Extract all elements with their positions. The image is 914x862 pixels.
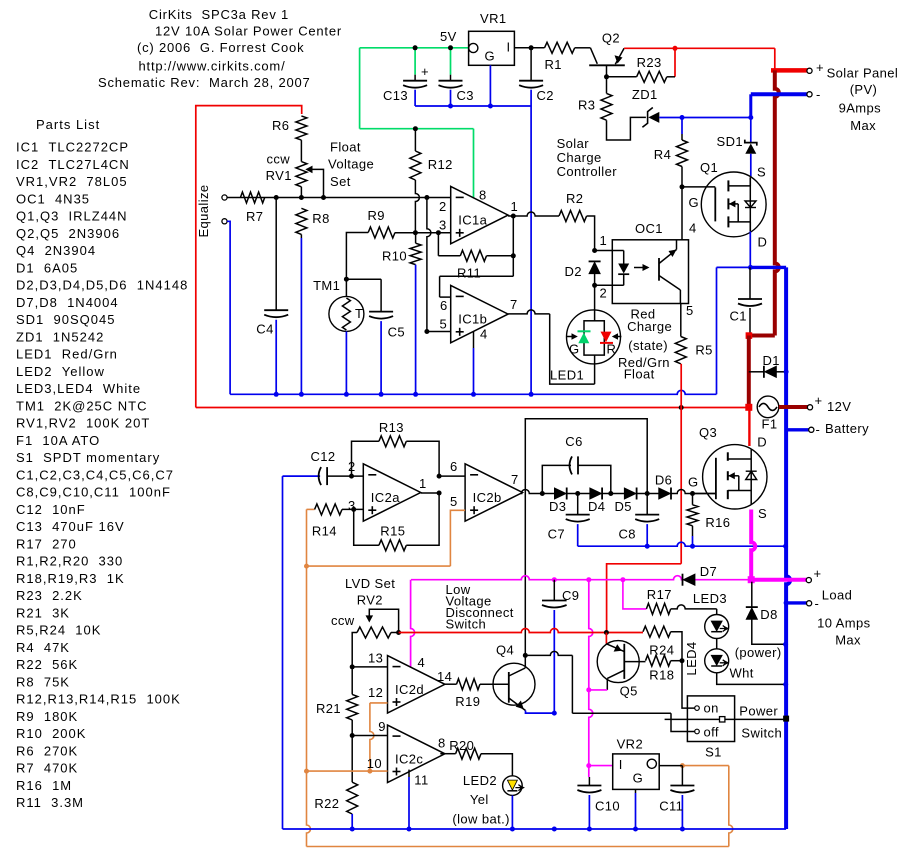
diode D4: [590, 488, 602, 499]
wire IC2c pin11: [408, 770, 410, 777]
svg-text:G: G: [688, 475, 699, 490]
svg-text:C2: C2: [537, 88, 554, 103]
svg-text:S: S: [757, 165, 766, 180]
svg-text:Solar: Solar: [557, 136, 590, 151]
wire magenta mid drop: [589, 580, 593, 777]
wire C2 gnd down long: [530, 106, 532, 394]
wire R5 red down: [680, 364, 682, 408]
wire box link: [525, 419, 647, 656]
switch S1: [687, 696, 734, 742]
wire d4d5: [602, 493, 624, 495]
resistor R11: [437, 233, 439, 256]
wire C8 drop: [646, 494, 648, 515]
svg-text:C12 10nF: C12 10nF: [16, 502, 86, 517]
svg-text:C12: C12: [311, 449, 336, 464]
svg-text:D1: D1: [763, 353, 780, 368]
svg-text:1: 1: [600, 233, 608, 248]
svg-text:+: +: [814, 566, 822, 581]
svg-text:-: -: [816, 422, 821, 437]
svg-text:on: on: [704, 701, 719, 716]
svg-text:D2: D2: [565, 264, 582, 279]
svg-text:5: 5: [686, 303, 694, 318]
svg-text:D3: D3: [549, 499, 566, 514]
led LED4: [716, 639, 718, 649]
svg-text:12V: 12V: [827, 399, 851, 414]
svg-text:VR2: VR2: [617, 737, 644, 752]
svg-text:7: 7: [511, 472, 519, 487]
resistor R5: [675, 337, 686, 364]
svg-text:4: 4: [480, 327, 488, 342]
svg-text:ccw: ccw: [331, 613, 355, 628]
svg-text:Schematic Rev: March 28, 2007: Schematic Rev: March 28, 2007: [98, 75, 311, 90]
svg-text:Charge: Charge: [557, 150, 602, 165]
svg-text:TM1 2K@25C NTC: TM1 2K@25C NTC: [16, 398, 148, 413]
svg-text:IC2c: IC2c: [395, 751, 423, 766]
svg-text:TM1: TM1: [313, 278, 340, 293]
svg-text:R23: R23: [637, 55, 662, 70]
svg-text:C11: C11: [659, 799, 683, 814]
svg-text:Q2,Q5 2N3906: Q2,Q5 2N3906: [16, 226, 120, 241]
svg-text:D: D: [758, 235, 768, 250]
wire magenta main row: [411, 576, 751, 580]
svg-text:LED2 Yellow: LED2 Yellow: [16, 364, 105, 379]
op-amp IC2a: [363, 464, 420, 521]
resistor R2: [559, 211, 587, 222]
svg-text:RV1,RV2 100K 20T: RV1,RV2 100K 20T: [16, 416, 150, 431]
svg-text:R6: R6: [272, 118, 289, 133]
wire led3 feed: [671, 605, 717, 609]
capacitor C2: [530, 48, 532, 81]
resistor R10: [415, 233, 417, 244]
wire solar- stub: [751, 92, 808, 96]
svg-text:4: 4: [689, 220, 697, 235]
svg-text:LED2: LED2: [463, 773, 497, 788]
svg-text:R12,R13,R14,R15 100K: R12,R13,R14,R15 100K: [16, 692, 181, 707]
svg-text:Controller: Controller: [557, 164, 618, 179]
wire red to R23: [674, 48, 676, 77]
svg-text:IC2d: IC2d: [395, 682, 424, 697]
resistor R20: [440, 753, 455, 755]
capacitor C11: [681, 766, 683, 786]
svg-text:14: 14: [437, 669, 452, 684]
wire blue mid rail: [230, 390, 716, 394]
svg-text:5: 5: [440, 317, 448, 332]
optocoupler OC1 box: [612, 240, 688, 304]
svg-text:C5: C5: [388, 325, 405, 340]
svg-text:Q2: Q2: [602, 31, 620, 46]
svg-text:R7 470K: R7 470K: [16, 761, 78, 776]
wire VR2 G: [635, 789, 637, 793]
wire diode row: [542, 493, 554, 495]
svg-text:C1,C2,C3,C4,C5,C6,C7: C1,C2,C3,C4,C5,C6,C7: [16, 467, 174, 482]
svg-text:C6: C6: [565, 434, 582, 449]
wire Q4 collector up: [524, 655, 526, 668]
svg-text:2: 2: [600, 286, 608, 301]
wire Q1 gate: [682, 186, 715, 188]
resistor R17: [623, 580, 647, 609]
diode D2: [589, 260, 601, 262]
svg-text:R11 3.3M: R11 3.3M: [16, 795, 84, 810]
op-amp IC2c: [388, 725, 445, 782]
svg-text:D6: D6: [655, 473, 672, 488]
capacitor C9: [553, 580, 555, 601]
node magenta big junction: [748, 576, 755, 583]
svg-text:http://www.cirkits.com/: http://www.cirkits.com/: [139, 59, 286, 74]
wire PV- down: [749, 94, 752, 117]
wire Q1 drain down: [749, 231, 751, 267]
wire pin3 row: [395, 232, 451, 234]
wire magenta Vcc drop: [411, 580, 415, 668]
wire 12V+ stub: [779, 405, 808, 409]
wire Q4 emitter blue: [526, 711, 555, 714]
svg-text:12: 12: [368, 685, 383, 700]
svg-text:Power: Power: [739, 704, 778, 719]
node dot OC1 pin2: [592, 283, 597, 288]
svg-text:R22 56K: R22 56K: [16, 657, 78, 672]
svg-text:OC1: OC1: [635, 221, 663, 236]
wire Q5 emitter stub: [605, 633, 607, 644]
svg-text:RV1: RV1: [266, 168, 292, 183]
wire Q3 source magenta: [751, 510, 755, 580]
pot RV1: [300, 140, 302, 162]
wire pin6 row: [439, 475, 465, 477]
wire LED4 to rail: [717, 673, 786, 685]
resistor R8: [296, 208, 307, 234]
node dot Q2 base node: [604, 74, 609, 79]
svg-text:R2: R2: [566, 191, 583, 206]
diode D3: [555, 488, 567, 499]
svg-text:IC2b: IC2b: [473, 490, 502, 505]
svg-text:G: G: [569, 342, 580, 357]
svg-text:R9: R9: [368, 208, 385, 223]
svg-text:5V: 5V: [440, 29, 457, 44]
wire C2 to gnd: [530, 90, 532, 106]
wire orange C11 row: [682, 765, 728, 767]
svg-text:C1: C1: [730, 309, 747, 324]
svg-text:1: 1: [511, 199, 519, 214]
resistor R24: [643, 626, 671, 637]
wire red down right: [774, 48, 776, 70]
wire solar+ stub: [771, 68, 808, 73]
svg-text:Q1: Q1: [700, 160, 718, 175]
svg-text:Q4 2N3904: Q4 2N3904: [16, 243, 96, 258]
svg-text:G: G: [633, 771, 644, 786]
wire R1 to Q2: [575, 47, 591, 49]
svg-text:G: G: [485, 49, 496, 64]
svg-text:Battery: Battery: [825, 421, 869, 436]
svg-text:C9: C9: [562, 588, 579, 603]
svg-text:G: G: [689, 195, 700, 210]
wire bat- stub: [786, 428, 810, 431]
svg-text:Set: Set: [330, 174, 351, 189]
svg-text:C8,C9,C10,C11 100nF: C8,C9,C10,C11 100nF: [16, 485, 171, 500]
svg-text:ZD1 1N5242: ZD1 1N5242: [16, 329, 104, 344]
wire Q1 gate to OC1 pin4: [681, 187, 683, 240]
wire equalize2 blue: [227, 221, 230, 394]
wire red bottom rail: [196, 407, 749, 409]
svg-text:Wht: Wht: [730, 666, 754, 681]
svg-text:C4: C4: [256, 322, 273, 337]
wire pin13 row: [352, 666, 387, 668]
svg-text:R4: R4: [654, 147, 671, 162]
regulator VR1: [469, 31, 515, 65]
svg-text:RV2: RV2: [357, 593, 383, 608]
svg-text:D1 6A05: D1 6A05: [16, 260, 78, 275]
optocoupler OC1 led: [623, 251, 625, 264]
wire Q3 gate: [693, 493, 716, 495]
svg-text:off: off: [704, 725, 719, 740]
wire Q4 coll to off: [525, 651, 572, 655]
svg-text:T: T: [355, 306, 363, 321]
svg-text:Solar Panel: Solar Panel: [827, 66, 899, 81]
svg-text:R1: R1: [545, 57, 562, 72]
wire pin2 row: [225, 197, 451, 199]
regulator VR2: [613, 754, 660, 790]
capacitor C12: [319, 467, 322, 485]
svg-text:R22: R22: [314, 796, 339, 811]
svg-text:1: 1: [419, 476, 427, 491]
wire pin9 row: [352, 735, 387, 737]
svg-text:(low bat.): (low bat.): [452, 812, 509, 827]
capacitor C10: [588, 777, 590, 786]
wire PV+ to C1 bottom: [749, 334, 775, 338]
svg-text:R18,R19,R3 1K: R18,R19,R3 1K: [16, 571, 125, 586]
capacitor C7: [577, 494, 579, 515]
svg-text:IC2 TLC27L4CN: IC2 TLC27L4CN: [16, 157, 130, 172]
svg-text:R10 200K: R10 200K: [16, 726, 86, 741]
svg-text:9: 9: [378, 719, 386, 734]
resistor R18: [646, 655, 671, 666]
wire IC1a out: [508, 212, 559, 216]
wire d5d6: [637, 493, 659, 495]
svg-text:4: 4: [418, 655, 426, 670]
wire RV1 bottom: [300, 187, 302, 198]
svg-text:D8: D8: [760, 607, 777, 622]
svg-text:C10: C10: [595, 799, 620, 814]
svg-text:8: 8: [438, 736, 446, 751]
wire orange bottom rail: [307, 846, 729, 848]
wire ZD1 to R4/PV-: [659, 117, 751, 119]
wire red R5-D7 drop: [680, 408, 682, 564]
svg-text:R15: R15: [380, 524, 405, 539]
wire magenta load+: [751, 578, 806, 582]
svg-text:ZD1: ZD1: [632, 87, 658, 102]
svg-text:R11: R11: [457, 266, 481, 281]
svg-text:R21: R21: [316, 701, 341, 716]
wire pin2pin5 link: [427, 198, 431, 332]
wire node267 to blue rail: [716, 267, 718, 394]
wire 5V green rail: [360, 47, 468, 49]
resistor R4: [681, 118, 683, 135]
svg-text:LED3,LED4 White: LED3,LED4 White: [16, 381, 141, 396]
svg-text:S1 SPDT momentary: S1 SPDT momentary: [16, 450, 160, 465]
wire IC2b out: [521, 490, 542, 494]
wire OC1 pin2 stub: [595, 284, 624, 286]
wire C3 top lead green: [450, 48, 452, 75]
svg-text:R7: R7: [246, 209, 263, 224]
wire R2 to D2: [587, 216, 595, 251]
wire orange left vert: [307, 509, 311, 846]
svg-text:VR1: VR1: [480, 11, 507, 26]
wire pin5 orange: [450, 510, 465, 566]
svg-text:Switch: Switch: [741, 726, 782, 741]
resistor R3: [601, 93, 612, 120]
node dot C13 top: [413, 45, 418, 50]
resistor R12: [414, 129, 416, 151]
wire C12 blue: [283, 475, 321, 477]
wire VR2 input magenta: [589, 765, 613, 767]
wire d6 to gate: [671, 490, 716, 494]
wire orange branch1: [307, 565, 451, 567]
svg-text:Max: Max: [850, 118, 876, 133]
svg-text:13: 13: [368, 651, 383, 666]
node dot fuse-left: [745, 404, 752, 411]
resistor R9: [346, 233, 368, 280]
capacitor C6: [542, 465, 571, 493]
svg-text:Float: Float: [624, 367, 655, 382]
svg-text:R: R: [607, 342, 617, 357]
wire R10 gnd: [415, 265, 417, 395]
wire blue gnd rail top: [415, 105, 531, 107]
svg-text:R24: R24: [649, 643, 674, 658]
svg-text:R18: R18: [649, 668, 674, 683]
op-amp IC2d: [388, 656, 445, 713]
wire pin5 row: [427, 331, 451, 333]
wire R8 gnd: [300, 238, 302, 394]
wire VR1 G to gnd: [489, 65, 491, 106]
svg-text:R23 2.2K: R23 2.2K: [16, 588, 83, 603]
svg-text:Voltage: Voltage: [328, 157, 374, 172]
svg-text:C13 470uF 16V: C13 470uF 16V: [16, 519, 125, 534]
svg-text:Max: Max: [835, 633, 861, 648]
wire Q3 drain red: [748, 407, 750, 446]
svg-text:IC1a: IC1a: [458, 213, 487, 228]
svg-text:C13: C13: [383, 88, 408, 103]
svg-text:8: 8: [479, 188, 487, 203]
svg-text:SD1 90SQ045: SD1 90SQ045: [16, 312, 115, 327]
wire PV+ heavy down: [775, 70, 779, 335]
node dot 5V: [448, 45, 453, 50]
svg-text:S: S: [758, 506, 767, 521]
svg-text:SD1: SD1: [717, 134, 744, 149]
node dot R12 top on green: [413, 126, 418, 131]
svg-text:D7,D8 1N4004: D7,D8 1N4004: [16, 295, 119, 310]
wire red jog to LVD: [607, 564, 682, 633]
svg-text:R6 270K: R6 270K: [16, 743, 78, 758]
svg-text:OC1 4N35: OC1 4N35: [16, 191, 90, 206]
resistor R14: [307, 508, 315, 510]
svg-text:Float: Float: [330, 140, 361, 155]
capacitor C5: [346, 278, 381, 280]
svg-text:3: 3: [439, 218, 447, 233]
svg-text:-: -: [815, 596, 820, 611]
svg-text:(PV): (PV): [850, 82, 878, 97]
capacitor C3: [450, 75, 452, 81]
svg-text:R17 270: R17 270: [16, 536, 77, 551]
wire R12 to pin3: [415, 180, 419, 233]
svg-text:7: 7: [510, 297, 518, 312]
svg-text:+: +: [816, 60, 824, 75]
svg-text:+: +: [421, 64, 429, 79]
wire VR1 out to R1: [514, 47, 544, 49]
wire pin12 orange: [370, 702, 388, 704]
svg-text:Yel: Yel: [470, 792, 489, 807]
resistor R13 loop: [352, 441, 379, 476]
svg-text:C8: C8: [619, 527, 636, 542]
svg-text:R14: R14: [312, 524, 337, 539]
capacitor C13: [414, 75, 416, 81]
resistor R16: [692, 494, 694, 505]
svg-text:Q3: Q3: [699, 425, 717, 440]
svg-text:12V 10A Solar Power Center: 12V 10A Solar Power Center: [155, 23, 342, 38]
svg-text:R19: R19: [455, 694, 480, 709]
svg-text:5: 5: [450, 494, 458, 509]
svg-text:I: I: [619, 757, 623, 772]
resistor R22: [351, 736, 353, 783]
resistor R7: [240, 192, 264, 203]
wire load- stub: [786, 601, 807, 604]
svg-text:R1,R2,R20 330: R1,R2,R20 330: [16, 554, 123, 569]
svg-text:C3: C3: [457, 88, 474, 103]
capacitor C4: [275, 198, 277, 311]
svg-text:R8 75K: R8 75K: [16, 674, 70, 689]
wire pin10 orange: [370, 770, 388, 772]
terminal equalize2: [222, 219, 227, 224]
svg-text:S1: S1: [705, 745, 722, 760]
svg-text:2: 2: [439, 199, 447, 214]
svg-text:R16: R16: [705, 515, 730, 530]
svg-text:R3: R3: [578, 98, 595, 113]
wire IC1b pin4: [473, 331, 475, 348]
svg-text:R12: R12: [428, 157, 453, 172]
fuse F1: [757, 396, 779, 418]
svg-text:R5,R24 10K: R5,R24 10K: [16, 623, 101, 638]
capacitor C8: [635, 514, 659, 516]
svg-text:R20: R20: [449, 738, 474, 753]
svg-text:R4 47K: R4 47K: [16, 640, 70, 655]
svg-text:9Amps: 9Amps: [839, 101, 882, 116]
resistor R23: [607, 76, 637, 78]
wire orange right vert: [729, 766, 733, 847]
svg-text:IC2a: IC2a: [371, 490, 400, 505]
svg-text:Charge: Charge: [627, 319, 672, 334]
svg-text:R17: R17: [647, 587, 672, 602]
svg-text:6: 6: [440, 298, 448, 313]
wire VR2 out: [659, 765, 682, 767]
svg-text:LED4: LED4: [684, 641, 699, 675]
wire S1 common: [725, 718, 786, 720]
svg-text:6: 6: [450, 459, 458, 474]
op-amp IC2b: [465, 464, 522, 521]
wire green bottom run: [360, 128, 474, 130]
terminal equalize1: [222, 195, 227, 200]
wire d3d4: [567, 493, 590, 495]
wire orange branch2: [307, 770, 370, 772]
svg-text:ccw: ccw: [267, 152, 291, 167]
op-amp IC1b: [451, 285, 508, 342]
svg-text:IC1 TLC2272CP: IC1 TLC2272CP: [16, 140, 129, 155]
wire red lvd row: [399, 629, 643, 633]
diode D6: [659, 488, 671, 499]
wire bat- heavy: [786, 267, 790, 829]
svg-text:Q4: Q4: [496, 643, 514, 658]
svg-text:Parts List: Parts List: [36, 117, 100, 132]
wire green left drop: [359, 48, 361, 129]
svg-text:(state): (state): [628, 338, 668, 353]
wire IC1b out drop: [550, 314, 595, 384]
resistor R1: [545, 42, 575, 53]
svg-text:CirKits SPC3a Rev 1: CirKits SPC3a Rev 1: [149, 7, 289, 22]
